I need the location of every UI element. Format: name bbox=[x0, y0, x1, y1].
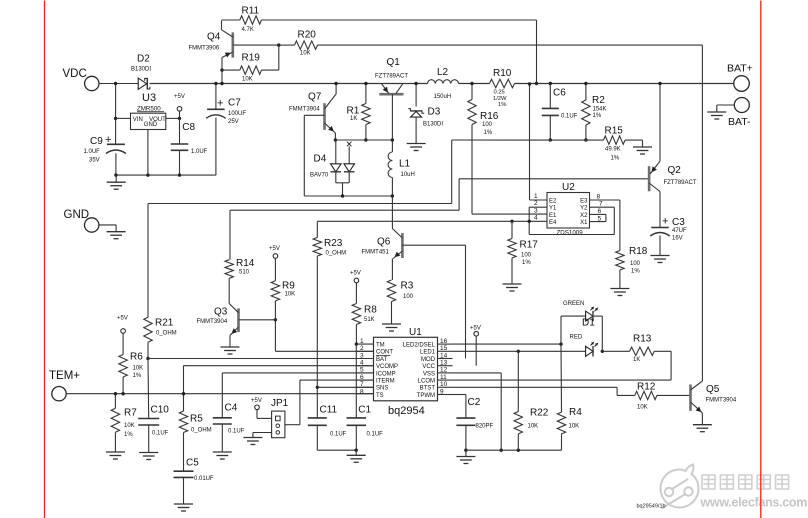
wire U3 GND pin bbox=[147, 130, 149, 176]
ground under R18 bbox=[610, 288, 629, 290]
svg-text:VSS: VSS bbox=[423, 371, 435, 377]
resistor R20 bbox=[279, 44, 295, 46]
+5V at JP1 bbox=[255, 405, 260, 410]
svg-text:R10: R10 bbox=[493, 68, 512, 79]
svg-text:Y1: Y1 bbox=[549, 206, 557, 212]
svg-text:R1: R1 bbox=[347, 106, 360, 117]
svg-text:Y2: Y2 bbox=[580, 206, 588, 212]
svg-text:+5V: +5V bbox=[251, 398, 262, 404]
svg-text:1%: 1% bbox=[498, 102, 506, 108]
wire Q3 base to U1 CONT bbox=[274, 320, 276, 352]
svg-text:25V: 25V bbox=[228, 119, 239, 125]
svg-text:R18: R18 bbox=[629, 246, 648, 257]
svg-text:E2: E2 bbox=[549, 199, 557, 205]
ground under Q5 bbox=[693, 424, 712, 426]
wire R21 node down to C10 bbox=[147, 359, 150, 419]
svg-text:TEM+: TEM+ bbox=[49, 370, 80, 382]
U2 pin2 loop wire bbox=[529, 206, 547, 208]
transistor Q2 bbox=[648, 166, 651, 191]
wire LCOM line bbox=[453, 379, 672, 381]
svg-text:E3: E3 bbox=[580, 199, 588, 205]
svg-text:R22: R22 bbox=[530, 408, 549, 419]
svg-text:4: 4 bbox=[534, 215, 538, 222]
svg-text:R9: R9 bbox=[282, 280, 295, 291]
svg-text:0.1UF: 0.1UF bbox=[367, 432, 384, 438]
resistor R18 bbox=[616, 251, 624, 271]
capacitor C11 bbox=[316, 387, 318, 418]
resistor R4 bbox=[560, 344, 563, 412]
svg-text:C11: C11 bbox=[320, 405, 338, 416]
svg-text:BTST: BTST bbox=[420, 386, 436, 392]
svg-text:10K: 10K bbox=[300, 51, 311, 57]
transistor Q1 bbox=[379, 93, 403, 96]
svg-text:FZT789ACT: FZT789ACT bbox=[664, 180, 697, 186]
svg-text:X2: X2 bbox=[580, 213, 588, 219]
svg-text:LED2/DSEL: LED2/DSEL bbox=[403, 343, 436, 349]
ground under C9 bbox=[115, 175, 117, 182]
wire BTST to R12 bbox=[453, 386, 618, 388]
wire U3 VIN bbox=[116, 117, 131, 119]
led D1 red bbox=[586, 346, 593, 356]
svg-text:1%: 1% bbox=[484, 130, 493, 136]
wire TM net down to C1 bbox=[355, 344, 357, 418]
wire MOD to Q6 base bbox=[465, 245, 467, 358]
svg-text:Q1: Q1 bbox=[387, 57, 401, 68]
svg-text:51K: 51K bbox=[364, 317, 375, 323]
svg-text:ITERM: ITERM bbox=[376, 379, 395, 385]
capacitor C9 bbox=[107, 143, 125, 145]
svg-text:U3: U3 bbox=[142, 92, 156, 104]
svg-text:0.25: 0.25 bbox=[494, 90, 505, 96]
ground under C10 bbox=[139, 452, 158, 454]
svg-text:3: 3 bbox=[534, 207, 538, 214]
jumper JP1 bbox=[272, 411, 285, 438]
capacitor C3 bbox=[659, 192, 661, 228]
svg-text:Q4: Q4 bbox=[207, 32, 221, 43]
svg-text:10K: 10K bbox=[242, 77, 253, 83]
resistor R21 bbox=[144, 317, 152, 342]
wire Q7 emitter bus y139.5 bbox=[335, 139, 392, 141]
svg-text:R23: R23 bbox=[324, 238, 343, 249]
watermark logo circle bbox=[661, 465, 699, 509]
svg-text:R7: R7 bbox=[124, 408, 137, 419]
svg-text:C10: C10 bbox=[151, 405, 170, 416]
resistor R9 bbox=[273, 254, 278, 259]
svg-text:Q5: Q5 bbox=[706, 384, 720, 395]
ground at GND port bbox=[115, 225, 117, 232]
svg-text:10K: 10K bbox=[528, 424, 539, 430]
svg-text:BAT: BAT bbox=[376, 357, 388, 363]
svg-text:1%: 1% bbox=[133, 373, 142, 379]
svg-text:1K: 1K bbox=[633, 357, 640, 363]
svg-text:1%: 1% bbox=[611, 156, 620, 162]
svg-text:E1: E1 bbox=[549, 213, 557, 219]
resistor R16 bbox=[471, 84, 473, 100]
no-connect x mark bbox=[347, 142, 352, 147]
resistor R2 bbox=[585, 84, 587, 101]
wire D4 cathodes join bbox=[335, 172, 337, 183]
transistor Q6 bbox=[391, 196, 393, 229]
svg-text:+5V: +5V bbox=[470, 326, 481, 332]
capacitor C6 bbox=[549, 84, 551, 109]
svg-text:C1: C1 bbox=[358, 405, 371, 416]
svg-text:10K: 10K bbox=[124, 423, 135, 429]
svg-text:1.0UF: 1.0UF bbox=[84, 149, 101, 155]
wire VSS down bbox=[453, 372, 502, 374]
svg-text:GND: GND bbox=[64, 209, 90, 221]
svg-text:D4: D4 bbox=[314, 154, 327, 165]
svg-text:4.7K: 4.7K bbox=[242, 27, 254, 33]
resistor R14 bbox=[229, 210, 231, 260]
svg-text:www.elecfans.com: www.elecfans.com bbox=[700, 496, 808, 510]
svg-text:B130DI: B130DI bbox=[423, 122, 443, 128]
svg-text:X1: X1 bbox=[580, 220, 588, 226]
svg-text:Q7: Q7 bbox=[308, 92, 322, 103]
svg-text:C5: C5 bbox=[186, 458, 199, 469]
diode D2 schottky bbox=[138, 78, 147, 89]
diode D3 schottky bbox=[415, 84, 417, 107]
capacitor C7 bbox=[215, 84, 217, 110]
svg-text:R13: R13 bbox=[633, 334, 652, 345]
ground rail right bbox=[466, 449, 562, 451]
led D1 green bbox=[586, 311, 593, 321]
svg-text:R3: R3 bbox=[401, 281, 414, 292]
svg-text:R17: R17 bbox=[520, 240, 539, 251]
svg-text:R21: R21 bbox=[155, 318, 174, 329]
U2 pin1 wire bbox=[529, 84, 531, 200]
svg-text:VDC: VDC bbox=[63, 68, 87, 80]
svg-text:ZDS1009: ZDS1009 bbox=[557, 229, 584, 236]
svg-text:1%: 1% bbox=[593, 113, 602, 119]
svg-text:100UF: 100UF bbox=[228, 111, 246, 117]
svg-text:Q6: Q6 bbox=[377, 237, 391, 248]
svg-text:0_OHM: 0_OHM bbox=[326, 251, 347, 257]
U2 pin5-6 short bbox=[590, 213, 606, 215]
ground at BAT- bbox=[707, 111, 726, 113]
transistor Q7 bbox=[323, 103, 326, 130]
resistor R15 bbox=[604, 136, 625, 144]
wire LED2 line bbox=[453, 343, 562, 345]
svg-text:100: 100 bbox=[630, 261, 641, 267]
wire R16 to U2 E1 bbox=[471, 125, 473, 215]
regulator U3 bbox=[131, 113, 166, 129]
svg-text:TS: TS bbox=[376, 393, 384, 399]
ground under C5 bbox=[174, 503, 193, 505]
svg-text:+: + bbox=[105, 134, 111, 146]
svg-text:JP1: JP1 bbox=[271, 398, 289, 409]
wire Q2 base bus bbox=[458, 179, 460, 210]
svg-text:bq2954: bq2954 bbox=[388, 405, 425, 417]
svg-text:D2: D2 bbox=[137, 54, 150, 65]
svg-text:0.1UF: 0.1UF bbox=[330, 432, 347, 438]
svg-text:R16: R16 bbox=[480, 111, 499, 122]
svg-text:R8: R8 bbox=[364, 305, 377, 316]
svg-text:+5V: +5V bbox=[350, 271, 361, 277]
U2 pin4 wire E4 bus bbox=[317, 220, 547, 222]
svg-text:+5V: +5V bbox=[269, 246, 280, 252]
resistor R5 bbox=[183, 365, 185, 411]
wire VCC to +5V bbox=[475, 336, 477, 366]
svg-text:BAT-: BAT- bbox=[728, 116, 751, 128]
svg-text:L2: L2 bbox=[437, 67, 449, 78]
ground under C3 bbox=[651, 255, 670, 257]
svg-text:0.1UF: 0.1UF bbox=[561, 113, 578, 119]
svg-text:+: + bbox=[662, 216, 668, 228]
svg-text:LCOM: LCOM bbox=[418, 379, 435, 385]
wire TEM+ line to TS bbox=[66, 393, 373, 395]
svg-text:U2: U2 bbox=[562, 182, 575, 193]
transistor Q3 bbox=[237, 308, 240, 332]
resistor R22 bbox=[517, 351, 519, 411]
wire R11 drop to rail bbox=[536, 20, 538, 84]
ground under R3 bbox=[382, 323, 401, 325]
svg-text:R11: R11 bbox=[242, 6, 260, 17]
inductor L2 bbox=[428, 80, 459, 84]
capacitor C8 bbox=[179, 118, 181, 144]
resistor R13 bbox=[602, 350, 629, 352]
wire battery sense y139.5 bbox=[452, 139, 604, 141]
svg-text:Q3: Q3 bbox=[214, 307, 228, 318]
wire Q7 base net down-right (y195.5 bus) bbox=[303, 115, 305, 196]
ic U1 bq2954 bbox=[374, 337, 438, 401]
ic U2 bbox=[547, 193, 590, 229]
svg-text:0_OHM: 0_OHM bbox=[191, 428, 212, 434]
resistor R11 bbox=[222, 19, 240, 21]
svg-text:10K: 10K bbox=[637, 405, 648, 411]
svg-text:C3: C3 bbox=[672, 217, 685, 228]
svg-text:GREEN: GREEN bbox=[563, 301, 584, 307]
wire VDC to D2 node bbox=[99, 83, 138, 85]
transistor Q5 bbox=[689, 385, 692, 411]
node VDC-VIN vertical bbox=[115, 84, 117, 144]
svg-text:6: 6 bbox=[598, 208, 602, 215]
transistor Q4 bbox=[232, 32, 235, 57]
svg-text:CONT: CONT bbox=[376, 350, 393, 356]
svg-text:+: + bbox=[217, 98, 223, 110]
svg-text:10uH: 10uH bbox=[401, 172, 415, 178]
resistor R7 bbox=[114, 394, 116, 409]
svg-text:MOD: MOD bbox=[421, 357, 436, 363]
capacitor C10 bbox=[138, 418, 159, 420]
svg-text:150uH: 150uH bbox=[434, 94, 452, 100]
svg-text:C9: C9 bbox=[90, 136, 103, 147]
ground under C2 bbox=[465, 450, 467, 456]
resistor R8 bbox=[354, 278, 359, 283]
ground at R15 bbox=[633, 146, 652, 148]
svg-text:C7: C7 bbox=[228, 98, 241, 109]
left red border bbox=[44, 1, 46, 518]
diode D4 dual bbox=[335, 140, 337, 164]
svg-text:VCC: VCC bbox=[422, 364, 435, 370]
resistor R1 bbox=[365, 84, 367, 104]
svg-text:1: 1 bbox=[534, 193, 538, 200]
ground at JP1 bbox=[243, 437, 262, 439]
svg-text:10K: 10K bbox=[285, 291, 296, 297]
svg-text:R5: R5 bbox=[190, 414, 203, 425]
+5V at U3 VOUT bbox=[177, 107, 182, 112]
capacitor C4 bbox=[221, 373, 223, 418]
ground under R7 bbox=[106, 451, 125, 453]
inductor L1 bbox=[391, 140, 393, 152]
resistor R23 bbox=[316, 221, 318, 237]
svg-text:100: 100 bbox=[403, 294, 414, 300]
ground under Q3 bbox=[221, 346, 240, 348]
svg-text:820PF: 820PF bbox=[476, 424, 494, 430]
ground rail under U3 bbox=[116, 174, 216, 176]
resistor R17 bbox=[511, 221, 513, 238]
U1 right pin stubs bbox=[438, 343, 453, 345]
svg-text:510: 510 bbox=[239, 269, 250, 275]
wire R21 to U1 BAT pin bbox=[148, 358, 374, 360]
svg-text:5: 5 bbox=[598, 215, 602, 222]
svg-text:1.0UF: 1.0UF bbox=[191, 149, 208, 155]
svg-text:0.01UF: 0.01UF bbox=[194, 476, 214, 482]
svg-text:C6: C6 bbox=[553, 88, 566, 99]
svg-text:100: 100 bbox=[482, 122, 493, 128]
svg-text:ICOMP: ICOMP bbox=[376, 371, 396, 377]
svg-text:FMMT3904: FMMT3904 bbox=[706, 398, 737, 404]
svg-text:2: 2 bbox=[534, 200, 538, 207]
svg-text:R20: R20 bbox=[298, 30, 317, 41]
capacitor C2 bbox=[456, 417, 475, 419]
svg-text:R14: R14 bbox=[236, 258, 255, 269]
resistor R3 bbox=[387, 280, 395, 302]
svg-text:C8: C8 bbox=[182, 122, 195, 133]
svg-text:100: 100 bbox=[521, 253, 532, 259]
wire green LED anode bbox=[560, 316, 562, 344]
svg-text:8: 8 bbox=[597, 194, 601, 201]
svg-text:LED1: LED1 bbox=[420, 350, 436, 356]
wire green cathode down bbox=[594, 315, 602, 317]
svg-text:R15: R15 bbox=[605, 126, 624, 137]
wire R20 drop to Q5 collector bbox=[701, 45, 703, 381]
svg-text:RED: RED bbox=[570, 335, 583, 341]
svg-text:D3: D3 bbox=[428, 107, 441, 118]
svg-text:C4: C4 bbox=[225, 403, 238, 414]
svg-text:BAT+: BAT+ bbox=[727, 63, 753, 75]
svg-text:Q2: Q2 bbox=[668, 165, 682, 176]
wire main VDC rail bbox=[150, 83, 428, 85]
svg-text:1%: 1% bbox=[522, 260, 531, 266]
svg-text:16V: 16V bbox=[672, 236, 683, 242]
wire TPWM to C2 bbox=[453, 394, 466, 396]
svg-text:+5V: +5V bbox=[174, 94, 185, 100]
svg-text:U1: U1 bbox=[409, 327, 422, 338]
svg-text:10K: 10K bbox=[133, 366, 144, 372]
svg-text:VIN: VIN bbox=[133, 117, 143, 123]
svg-text:R2: R2 bbox=[592, 95, 605, 106]
wire main rail L2 to R10 bbox=[459, 83, 490, 85]
svg-text:BAV70: BAV70 bbox=[310, 173, 329, 179]
svg-text:FMMT3904: FMMT3904 bbox=[289, 107, 320, 113]
resistor R19 bbox=[222, 69, 240, 71]
svg-text:D1: D1 bbox=[582, 318, 595, 329]
wire GND port bbox=[99, 224, 116, 226]
svg-text:+5V: +5V bbox=[117, 316, 128, 322]
svg-text:FZT789ACT: FZT789ACT bbox=[375, 74, 408, 80]
svg-text:R19: R19 bbox=[242, 53, 261, 64]
svg-text:35V: 35V bbox=[89, 157, 100, 163]
svg-text:bq29549/1b: bq29549/1b bbox=[637, 504, 666, 510]
resistor R6 bbox=[121, 329, 126, 334]
svg-text:FMMT451: FMMT451 bbox=[362, 250, 390, 256]
wire ICOMP to C4 bbox=[222, 372, 373, 374]
U2 pin8 wire bbox=[590, 199, 620, 201]
svg-text:R12: R12 bbox=[637, 382, 656, 393]
U1 left pin stubs bbox=[356, 343, 373, 345]
svg-text:SNS: SNS bbox=[376, 386, 388, 392]
wire R14 to Q2 base bus y209.7 bbox=[230, 209, 459, 211]
right red border bbox=[760, 1, 762, 518]
ground under R17 bbox=[503, 283, 522, 285]
svg-text:0_OHM: 0_OHM bbox=[156, 331, 177, 337]
svg-text:154K: 154K bbox=[593, 107, 607, 113]
ground under C4 bbox=[213, 451, 232, 453]
wire R23 to SNS bbox=[317, 386, 373, 388]
svg-text:C2: C2 bbox=[468, 397, 481, 408]
svg-text:TPWM: TPWM bbox=[417, 393, 435, 399]
resistor R10 bbox=[490, 79, 515, 87]
svg-text:49.9K: 49.9K bbox=[605, 146, 621, 152]
svg-text:1%: 1% bbox=[124, 432, 133, 438]
watermark chinese text bbox=[702, 475, 789, 489]
svg-text:1%: 1% bbox=[631, 269, 640, 275]
svg-text:B130DI: B130DI bbox=[131, 67, 151, 73]
wire LED1 line bbox=[453, 350, 586, 352]
wire BAT- to ground bbox=[717, 104, 735, 106]
wire U3 VOUT bbox=[166, 117, 180, 119]
svg-text:L1: L1 bbox=[399, 159, 411, 170]
svg-text:47UF: 47UF bbox=[672, 228, 687, 234]
svg-text:7: 7 bbox=[599, 201, 603, 208]
svg-text:VCOMP: VCOMP bbox=[376, 364, 398, 370]
capacitor C5 bbox=[174, 470, 194, 472]
wire VCOMP to R5 bbox=[184, 365, 374, 367]
ground under C1 bbox=[355, 450, 357, 455]
svg-text:R4: R4 bbox=[569, 407, 582, 418]
svg-text:FMMT3904: FMMT3904 bbox=[197, 319, 228, 325]
svg-text:R6: R6 bbox=[130, 352, 143, 363]
wire JP1 pin2 to ITERM bbox=[285, 424, 300, 426]
svg-text:0.1UF: 0.1UF bbox=[228, 429, 245, 435]
wire sense bus to BAT pin route bbox=[451, 140, 453, 204]
resistor R12 bbox=[635, 391, 657, 399]
svg-text:0.1UF: 0.1UF bbox=[152, 431, 169, 437]
svg-text:10K: 10K bbox=[569, 424, 580, 430]
svg-text:1K: 1K bbox=[350, 116, 357, 122]
svg-text:TM: TM bbox=[376, 343, 385, 349]
svg-text:FMMT3906: FMMT3906 bbox=[189, 46, 220, 52]
svg-text:E4: E4 bbox=[549, 220, 557, 226]
wire main rail R10 to BAT+ bbox=[515, 83, 734, 85]
wire JP1 pin3 to ground bbox=[253, 432, 272, 434]
capacitor C1 bbox=[347, 417, 367, 419]
svg-text:GND: GND bbox=[144, 122, 158, 128]
